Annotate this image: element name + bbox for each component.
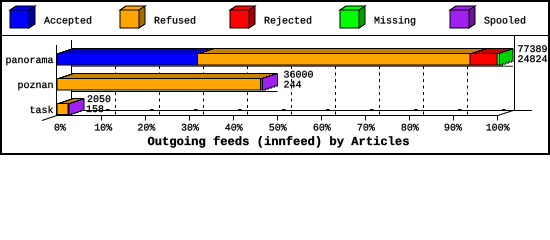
- legend cube Rejected: [230, 6, 255, 28]
- svg-text:80%: 80%: [401, 124, 419, 135]
- back x-axis line: [72, 110, 533, 112]
- bar panorama: right side face: [500, 49, 514, 66]
- svg-text:158: 158: [86, 105, 104, 116]
- bar poznan: right side face: [263, 74, 278, 91]
- image border frame: [1, 1, 550, 155]
- svg-text:Spooled: Spooled: [484, 16, 526, 28]
- origin depth diagonal: [42, 116, 57, 121]
- bar task: top faces: [57, 99, 84, 115]
- bar panorama: side right edge: [512, 49, 514, 61]
- ruler line row poznan: [72, 91, 278, 93]
- x-axis 10% nubs on back line: [106, 109, 506, 111]
- bar poznan: stepped edges: [57, 74, 278, 91]
- svg-text:task: task: [30, 105, 54, 117]
- svg-text:24824: 24824: [518, 55, 548, 66]
- svg-text:Rejected: Rejected: [264, 16, 312, 28]
- svg-text:panorama: panorama: [6, 56, 54, 67]
- svg-text:poznan: poznan: [18, 81, 54, 92]
- gridline dashes (vertical, behind bars): [72, 48, 468, 115]
- front x-axis: [57, 115, 498, 117]
- svg-text:40%: 40%: [225, 124, 243, 135]
- legend cube Accepted: [10, 6, 35, 28]
- bar panorama: front faces: [57, 54, 500, 66]
- svg-text:70%: 70%: [357, 124, 375, 135]
- x-axis depth ramp at right end: [498, 111, 513, 116]
- legend cube Missing: [340, 6, 365, 28]
- svg-text:30%: 30%: [181, 124, 199, 135]
- svg-text:90%: 90%: [444, 124, 462, 135]
- bar panorama: stepped edges: [57, 49, 515, 66]
- svg-text:100%: 100%: [486, 124, 510, 135]
- svg-text:50%: 50%: [269, 124, 287, 135]
- bar task: right side face: [69, 99, 84, 115]
- bar panorama: top back edge: [72, 48, 514, 50]
- back y-axis: [71, 40, 73, 111]
- svg-text:20%: 20%: [137, 124, 155, 135]
- svg-text:0%: 0%: [54, 124, 66, 135]
- bar poznan: front faces: [57, 79, 263, 91]
- ruler line row panorama: [72, 65, 514, 67]
- svg-text:Outgoing feeds (innfeed) by Ar: Outgoing feeds (innfeed) by Articles: [148, 135, 410, 149]
- legend cube Refused: [120, 6, 145, 28]
- bar task: side right edge: [83, 99, 85, 110]
- svg-text:244: 244: [284, 81, 302, 92]
- bar task: stepped edges: [57, 99, 84, 115]
- legend separator line: [0, 35, 550, 37]
- bar poznan: top back edge: [72, 73, 278, 75]
- svg-text:Accepted: Accepted: [44, 16, 92, 28]
- bar task: top back edge: [72, 98, 85, 100]
- bar poznan: side right edge: [277, 74, 279, 86]
- svg-text:Refused: Refused: [154, 16, 196, 28]
- right wall line: [514, 35, 516, 111]
- front y-axis: [56, 45, 58, 116]
- front axis ticks: [102, 116, 498, 121]
- legend cube Spooled: [450, 6, 475, 28]
- bar poznan: top faces: [57, 74, 278, 91]
- bar task: front faces: [57, 104, 69, 115]
- svg-text:Missing: Missing: [374, 16, 416, 28]
- svg-text:60%: 60%: [313, 124, 331, 135]
- bar panorama: top faces: [57, 49, 513, 66]
- svg-text:10%: 10%: [94, 124, 112, 135]
